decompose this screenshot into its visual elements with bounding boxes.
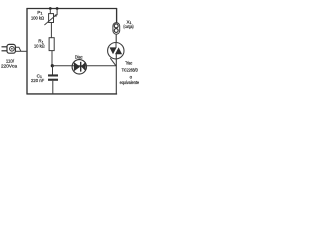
- svg-text:220Vca: 220Vca: [1, 64, 17, 69]
- wire: right bus top segment to load X1: [116, 8, 118, 23]
- plug face dot: [11, 48, 13, 50]
- resistor R1 body: [49, 38, 54, 51]
- svg-text:100 kΩ: 100 kΩ: [31, 16, 44, 21]
- plug cord upper lead: [15, 47, 21, 51]
- svg-text:Diac: Diac: [75, 54, 83, 59]
- plug prong (lower): [2, 50, 8, 51]
- diac triangle (right-pointing): [74, 62, 80, 71]
- svg-text:equivalente: equivalente: [120, 80, 140, 85]
- wire: gate line from node through diac to triac MT1 drop: [52, 65, 116, 67]
- wire: P1 bottom to R1 top: [50, 23, 52, 38]
- wire: gate node to C1 top plate: [52, 66, 54, 75]
- svg-text:Triac: Triac: [125, 61, 132, 66]
- diac circle: [72, 60, 86, 74]
- load X1 body (stadium outline): [113, 23, 120, 35]
- wire: P1 top lead: [49, 9, 51, 14]
- diac triangle (left-pointing): [81, 62, 86, 71]
- svg-text:10 kΩ: 10 kΩ: [34, 44, 45, 49]
- triac triangle (down-pointing, left): [110, 47, 117, 54]
- triac gate lead (diagonal from circle lower-left): [110, 58, 116, 66]
- plug body: [7, 44, 15, 53]
- plug cord lower lead: [15, 50, 21, 52]
- wire: load X1 to triac MT2: [115, 34, 117, 42]
- plug prong (upper): [2, 46, 8, 47]
- node: junction P1 wiper on top bus: [56, 7, 59, 10]
- svg-text:o: o: [130, 75, 133, 80]
- node: junction P1 top terminal on top bus: [49, 7, 52, 10]
- diac center bar: [80, 62, 82, 72]
- svg-text:220 nF: 220 nF: [31, 78, 44, 83]
- capacitor C1 bottom plate: [48, 79, 58, 81]
- wire: top bus: [27, 8, 118, 10]
- wire: bottom bus: [27, 93, 118, 95]
- potentiometer P1 wiper arrow: [44, 14, 57, 25]
- triac MT2 internal lead: [115, 43, 117, 48]
- wire: plug cord to left bus: [21, 50, 27, 52]
- wire: R1 bottom to gate node: [51, 51, 53, 66]
- plug face ring: [10, 47, 15, 52]
- capacitor C1 top plate: [48, 74, 58, 76]
- node: gate network junction (R1/C1/diac): [51, 64, 54, 67]
- wire: left bus: [26, 8, 28, 94]
- triac circle: [108, 43, 124, 59]
- svg-text:TIC226B/D: TIC226B/D: [122, 68, 139, 73]
- load X1 upper contact ring: [114, 24, 118, 28]
- wire: triac MT1 to bottom bus: [115, 54, 117, 94]
- wire: P1 wiper lead to top bus: [56, 9, 58, 16]
- load X1 lower contact ring: [114, 29, 118, 33]
- potentiometer P1 body: [49, 14, 54, 23]
- svg-text:(carga): (carga): [123, 24, 134, 29]
- triac triangle (up-pointing, right): [115, 47, 122, 54]
- wire: C1 bottom plate to bottom bus: [52, 81, 54, 94]
